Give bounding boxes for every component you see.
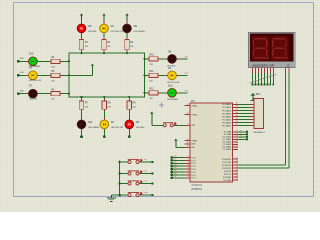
wire	[172, 174, 185, 176]
wire	[18, 60, 28, 62]
LED D4	[166, 67, 180, 84]
junction	[170, 162, 173, 165]
wire	[172, 159, 185, 161]
svg-text:2: 2	[188, 159, 189, 161]
wire	[266, 73, 268, 85]
pin display seg G	[269, 68, 271, 73]
svg-text:P3.5/T1: P3.5/T1	[224, 174, 232, 176]
wire trunk	[119, 162, 121, 195]
wire	[38, 93, 50, 95]
pin 4 P1.3	[184, 165, 196, 169]
wire	[238, 73, 289, 168]
svg-text:D12: D12	[168, 85, 173, 88]
wire	[103, 129, 105, 136]
node terminal D3	[17, 72, 25, 77]
wire	[172, 165, 185, 167]
wire	[69, 74, 93, 76]
LED D9	[123, 22, 146, 35]
pin 10 P3.0/RXD	[222, 157, 238, 161]
svg-text:LD3: LD3	[173, 164, 176, 166]
svg-text:P0.7/AD7: P0.7/AD7	[222, 124, 232, 127]
pin display digit2	[288, 68, 290, 73]
svg-text:37: 37	[236, 109, 238, 111]
wire	[81, 129, 83, 136]
pin 19 XTAL1	[184, 104, 198, 108]
resistor R6	[49, 89, 61, 101]
pin 18 XTAL2	[184, 113, 198, 117]
wire	[238, 109, 251, 111]
wire	[145, 92, 148, 94]
power terminal above D9	[125, 13, 128, 23]
annotation line	[249, 74, 276, 83]
resistor R3	[125, 38, 135, 52]
svg-text:GND: GND	[20, 72, 25, 74]
pin 32 P0.7/AD7	[222, 124, 238, 128]
display DISP1 7SEG-MPX2 body	[248, 32, 295, 67]
svg-text:31: 31	[187, 146, 189, 148]
svg-text:start: start	[144, 158, 148, 161]
wire	[128, 129, 130, 136]
wire	[81, 97, 83, 99]
ground	[107, 195, 116, 202]
LED D3	[27, 66, 42, 82]
LED D6	[125, 118, 145, 131]
junction	[144, 92, 146, 94]
wire	[160, 92, 167, 94]
svg-text:ALE: ALE	[191, 143, 196, 146]
net label P1.4	[173, 167, 176, 169]
button SW-RST	[163, 122, 177, 127]
wire	[139, 194, 153, 196]
origin marker	[159, 103, 164, 108]
svg-text:30: 30	[187, 142, 189, 144]
svg-text:5: 5	[188, 168, 189, 170]
svg-text:LD1: LD1	[173, 159, 176, 161]
net label P2.0	[240, 130, 242, 132]
svg-text:17: 17	[236, 178, 238, 180]
pin display seg F	[266, 68, 268, 73]
junction	[170, 174, 173, 177]
wire	[103, 111, 105, 120]
node terminal	[151, 194, 153, 196]
junction	[170, 156, 173, 159]
svg-text:39: 39	[236, 103, 238, 105]
pin display seg E	[263, 68, 265, 73]
svg-text:R12: R12	[149, 88, 154, 91]
junction	[80, 52, 82, 54]
svg-text:8: 8	[188, 176, 189, 178]
wire	[81, 33, 83, 38]
svg-text:4: 4	[188, 165, 189, 167]
wire	[257, 73, 259, 85]
junction	[144, 74, 146, 76]
svg-text:15: 15	[236, 172, 238, 174]
svg-text:R10: R10	[149, 54, 154, 57]
svg-text:GND: GND	[20, 90, 25, 92]
svg-text:33: 33	[236, 121, 238, 123]
wire	[18, 74, 28, 76]
wire	[103, 97, 105, 99]
wire	[172, 162, 185, 164]
wire	[139, 183, 153, 185]
pin RP1-6	[251, 115, 254, 117]
svg-text:13: 13	[236, 166, 238, 168]
power terminal above D1	[102, 13, 105, 23]
button stop	[128, 171, 143, 176]
button reset	[128, 181, 143, 186]
svg-text:s1: s1	[240, 132, 242, 134]
pin display seg A	[252, 68, 254, 73]
label start	[144, 158, 148, 161]
svg-text:P22: P22	[185, 73, 188, 75]
LED D7	[27, 85, 40, 101]
pin RP1-5	[251, 112, 254, 114]
wire	[238, 136, 247, 138]
pin RP1-7	[251, 118, 254, 120]
net label P1.2	[173, 161, 176, 163]
pin display digit1	[284, 68, 286, 73]
svg-text:reset: reset	[144, 180, 149, 183]
power terminal EA	[174, 139, 177, 148]
wire	[62, 93, 69, 95]
pin 31 EA	[184, 146, 194, 150]
pin 33 P0.6/AD6	[222, 121, 238, 125]
wire	[238, 138, 247, 140]
wire	[238, 115, 251, 117]
junction	[103, 52, 105, 54]
wire	[38, 74, 50, 76]
wire	[238, 112, 251, 114]
junction	[246, 131, 248, 133]
junction	[118, 172, 121, 175]
wire	[160, 58, 167, 60]
power terminal VCC	[91, 64, 94, 76]
node terminal D10	[17, 58, 25, 63]
resistor R2	[102, 38, 112, 52]
svg-text:P3.4/T0: P3.4/T0	[224, 171, 232, 173]
svg-text:P21: P21	[185, 57, 188, 59]
wire	[238, 131, 247, 133]
wire	[172, 171, 185, 173]
resistor pack RP1 body	[254, 94, 266, 134]
pin display seg B	[254, 68, 256, 73]
wire	[126, 33, 128, 38]
svg-text:P0.0/AD0: P0.0/AD0	[222, 103, 232, 106]
LED D12	[166, 85, 179, 102]
svg-text:P3.3/INT1: P3.3/INT1	[222, 168, 232, 170]
net label P1.5	[173, 170, 176, 172]
net label P1.7	[173, 176, 176, 178]
svg-text:D9: D9	[134, 24, 138, 28]
LED D10	[27, 52, 41, 68]
power terminal above D5	[80, 13, 83, 23]
junction	[170, 171, 173, 174]
svg-text:19: 19	[187, 104, 189, 106]
svg-text:s2: s2	[240, 135, 242, 137]
junction	[144, 58, 146, 60]
wire	[126, 51, 128, 53]
power terminal RST	[150, 112, 153, 126]
svg-text:34: 34	[236, 118, 238, 120]
wire	[177, 92, 188, 94]
wire	[111, 194, 119, 196]
pin 28 P2.7/A15	[223, 148, 238, 152]
svg-text:P3.1/TXD: P3.1/TXD	[222, 162, 232, 164]
wire	[103, 33, 105, 38]
svg-text:D10: D10	[29, 52, 34, 55]
pin 3 P1.2	[184, 162, 196, 166]
junction	[258, 84, 260, 86]
pin RP1-2	[251, 103, 254, 105]
pin 36 P0.3/AD3	[222, 112, 238, 116]
pin 23 P2.2/A10	[223, 135, 238, 139]
wire	[120, 161, 128, 163]
svg-text:LD7: LD7	[173, 176, 176, 178]
svg-text:11: 11	[236, 160, 238, 162]
junction	[272, 84, 274, 86]
svg-text:P0.3/AD3: P0.3/AD3	[222, 112, 232, 115]
net label P1.3	[173, 164, 176, 166]
pin RP1-4	[251, 109, 254, 111]
svg-text:stop: stop	[144, 170, 148, 173]
svg-text:P3.6/WR: P3.6/WR	[223, 177, 232, 179]
svg-text:D5: D5	[88, 24, 92, 28]
wire	[238, 121, 251, 123]
pin 35 P0.4/AD4	[222, 115, 238, 119]
wire	[145, 58, 148, 60]
svg-text:38: 38	[236, 106, 238, 108]
pin 1 RP1 common	[251, 100, 254, 102]
wire	[62, 74, 69, 76]
LED D8	[166, 51, 179, 68]
svg-text:16: 16	[236, 175, 238, 177]
svg-text:18: 18	[187, 113, 189, 115]
svg-text:LED-RED: LED-RED	[29, 98, 38, 100]
pin 39 P0.0/AD0	[222, 103, 238, 107]
svg-text:LD4: LD4	[173, 167, 176, 169]
wire	[145, 74, 148, 76]
svg-text:29: 29	[187, 139, 189, 141]
node terminal	[128, 135, 131, 138]
wire	[128, 97, 130, 99]
junction	[252, 84, 254, 86]
pin 1 P1.0	[184, 156, 196, 160]
wire	[263, 73, 265, 85]
junction	[103, 96, 105, 98]
wire	[238, 73, 285, 165]
wire	[238, 118, 251, 120]
svg-text:XTAL1: XTAL1	[191, 104, 198, 107]
label reset	[144, 180, 149, 183]
svg-text:timer: timer	[144, 191, 149, 194]
wire	[172, 177, 185, 179]
label stop	[144, 170, 148, 173]
resistor R9	[127, 99, 137, 111]
IC U3 AT89C51 body	[190, 99, 232, 191]
resistor R4	[49, 56, 61, 68]
wire bus rectangle	[69, 53, 145, 97]
svg-text:AT89C51: AT89C51	[191, 187, 202, 191]
svg-text:P0.6/AD6: P0.6/AD6	[222, 121, 232, 124]
resistor R12	[147, 88, 159, 100]
junction	[68, 74, 70, 76]
junction	[255, 84, 257, 86]
pin 15 P3.5/T1	[224, 172, 238, 176]
svg-text:LED-YELLOW: LED-YELLOW	[111, 127, 123, 129]
wire	[269, 73, 271, 85]
svg-text:12: 12	[286, 64, 289, 68]
junction	[68, 60, 70, 62]
svg-text:LED-YELLOW: LED-YELLOW	[29, 80, 41, 82]
LED D11	[77, 118, 100, 131]
resistor R5	[49, 70, 61, 82]
junction	[269, 84, 271, 86]
wire	[81, 111, 83, 120]
pin 11 P3.1/TXD	[222, 160, 238, 164]
wire	[172, 157, 185, 159]
pin 34 P0.5/AD5	[222, 118, 238, 122]
svg-text:RP1: RP1	[256, 94, 261, 96]
svg-text:36: 36	[236, 112, 238, 114]
pin 7 P1.6	[184, 173, 196, 177]
pin RP1-3	[251, 106, 254, 108]
pin 27 P2.6/A14	[223, 145, 238, 149]
svg-text:P0.4/AD4: P0.4/AD4	[222, 115, 232, 118]
junction	[246, 133, 248, 135]
svg-text:35: 35	[236, 115, 238, 117]
resistor R10	[147, 54, 159, 66]
pin 13 P3.3/INT1	[222, 166, 238, 170]
wire	[128, 111, 130, 120]
node terminal	[80, 135, 83, 138]
LED D2	[100, 118, 123, 131]
svg-text:D1: D1	[111, 24, 115, 28]
svg-text:P3.7/RD: P3.7/RD	[223, 180, 231, 182]
svg-text:P23: P23	[185, 91, 188, 93]
svg-text:ABCDEFG DP: ABCDEFG DP	[252, 64, 274, 68]
power terminal RP1	[251, 93, 256, 101]
svg-text:P2.7/A15: P2.7/A15	[223, 148, 232, 151]
pin display seg D	[260, 68, 262, 73]
wire	[238, 125, 251, 127]
svg-text:R11: R11	[149, 70, 154, 73]
resistor R11	[147, 70, 159, 82]
svg-text:P3.0/RXD: P3.0/RXD	[222, 159, 232, 161]
node terminal	[103, 135, 106, 138]
pin display seg H	[272, 68, 274, 73]
wire	[120, 194, 128, 196]
pin RP1-9	[251, 125, 254, 127]
button start	[128, 159, 143, 164]
junction	[246, 138, 248, 140]
junction	[170, 177, 173, 180]
junction	[266, 84, 268, 86]
svg-text:GND: GND	[20, 58, 25, 60]
svg-text:U3: U3	[191, 99, 195, 103]
pin 24 P2.3/A11	[223, 138, 238, 142]
pin 26 P2.5/A13	[223, 143, 238, 147]
svg-text:LED-GREEN: LED-GREEN	[167, 99, 179, 101]
svg-text:LED-GREEN: LED-GREEN	[134, 31, 146, 33]
pin 9 RST	[184, 124, 196, 128]
LED D1	[100, 22, 123, 35]
pin 2 P1.1	[184, 159, 196, 163]
svg-text:28: 28	[236, 148, 238, 150]
pin 37 P0.2/AD2	[222, 109, 238, 113]
pin 22 P2.1/A9	[224, 133, 238, 137]
svg-text:P0.1/AD1: P0.1/AD1	[222, 106, 232, 109]
svg-text:LED-YELLOW: LED-YELLOW	[111, 31, 123, 33]
svg-text:LD2: LD2	[173, 161, 176, 163]
junction	[128, 96, 130, 98]
junction	[261, 84, 263, 86]
wire	[152, 124, 163, 126]
pin 17 P3.7/RD	[223, 178, 238, 182]
wire	[177, 58, 188, 60]
svg-text:LD6: LD6	[173, 173, 176, 175]
svg-text:XTAL2: XTAL2	[191, 113, 198, 116]
pin 30 ALE	[184, 142, 196, 146]
junction	[80, 96, 82, 98]
svg-text:RST: RST	[191, 125, 196, 127]
label timer	[144, 191, 149, 194]
net label P1.6	[173, 173, 176, 175]
wire	[176, 146, 185, 148]
net label P2.1	[240, 132, 242, 134]
svg-text:6: 6	[188, 170, 189, 172]
svg-text:P3.2/INT0: P3.2/INT0	[222, 165, 232, 167]
wire	[120, 173, 128, 175]
pin 8 P1.7	[184, 176, 196, 180]
node terminal	[151, 161, 153, 163]
svg-text:9: 9	[188, 124, 189, 126]
wire	[81, 51, 83, 53]
pin RP1-8	[251, 121, 254, 123]
svg-text:10: 10	[236, 157, 238, 159]
junction	[170, 159, 173, 162]
node terminal	[151, 182, 153, 184]
svg-text:PSEN: PSEN	[191, 140, 197, 142]
wire	[252, 73, 254, 85]
wire	[260, 73, 262, 85]
svg-text:LED-GREEN: LED-GREEN	[88, 127, 100, 129]
wire	[254, 73, 256, 85]
wire	[139, 161, 153, 163]
wire	[238, 106, 251, 108]
wire	[62, 60, 69, 62]
svg-text:s0: s0	[240, 130, 242, 132]
junction	[170, 168, 173, 171]
pin 21 P2.0/A8	[224, 130, 238, 134]
svg-text:s3: s3	[240, 137, 242, 139]
pin 14 P3.4/T0	[224, 169, 238, 173]
wire	[272, 73, 274, 85]
junction	[170, 165, 173, 168]
pin 5 P1.4	[184, 168, 196, 172]
net label P23	[185, 91, 188, 93]
svg-text:LED-RED: LED-RED	[136, 127, 145, 129]
junction	[118, 182, 121, 185]
svg-text:32: 32	[236, 124, 238, 126]
svg-text:LED-RED: LED-RED	[88, 31, 97, 33]
resistor R7	[79, 99, 89, 111]
pin 38 P0.1/AD1	[222, 106, 238, 110]
svg-text:RESPACK-8: RESPACK-8	[254, 131, 266, 134]
junction	[118, 194, 121, 197]
wire	[238, 103, 251, 105]
net label P21	[185, 57, 188, 59]
svg-text:7: 7	[188, 173, 189, 175]
